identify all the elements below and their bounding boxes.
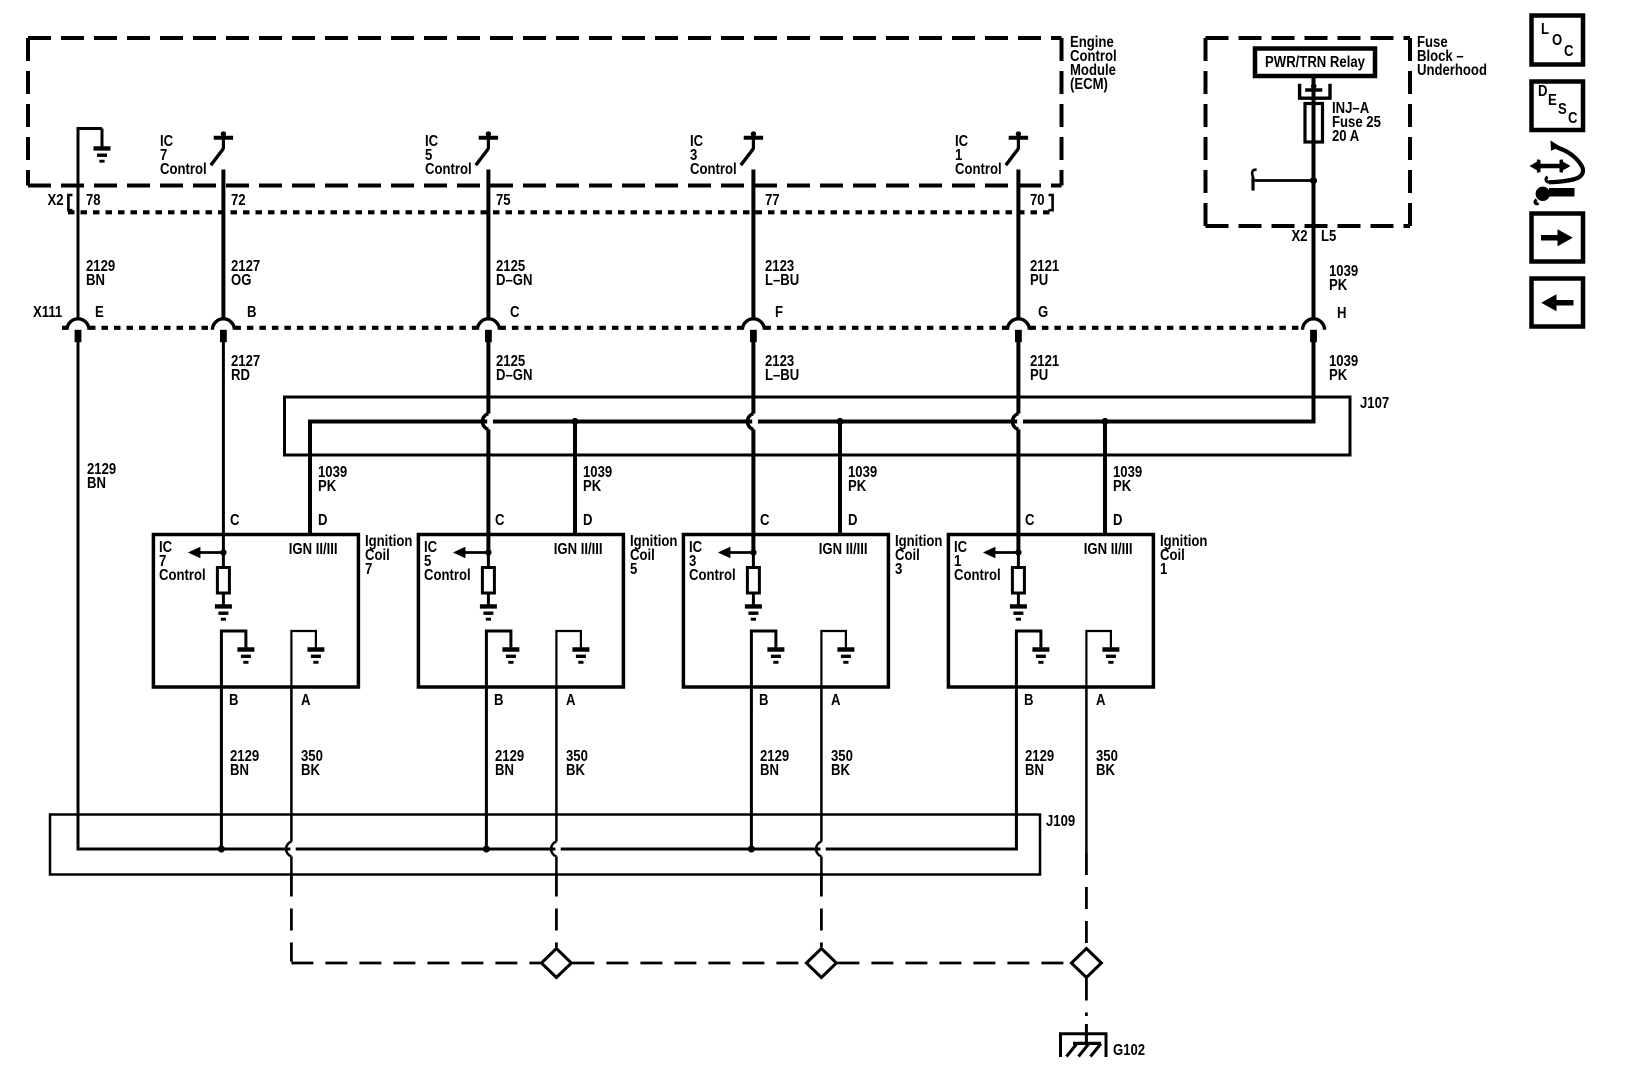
J107 junction dot for coil 3 feed <box>836 418 843 425</box>
label: INJ-A Fuse 25 20 A <box>1332 102 1381 144</box>
label: wire label 2127 RD <box>231 355 260 383</box>
IC 3 Control driver symbol <box>741 131 763 165</box>
splice diamond 3 <box>1071 949 1101 978</box>
label: wire label 1039 PK drop at 847.5 <box>848 466 877 494</box>
fuse INJ-A Fuse 25 20A body <box>1305 104 1323 143</box>
wire 1039 PK fuse block to X111 pin H <box>1312 181 1316 319</box>
dashed wire 350 BK coil 5 A down to splice <box>555 875 558 948</box>
label: pin L5 <box>1321 230 1336 244</box>
label: wire label 2125 D-GN row1 <box>496 260 532 288</box>
Ignition Coil 7 box <box>153 535 358 688</box>
label: LOC letter C <box>1564 45 1573 59</box>
label: wire label 350 BK below coil 5 <box>566 750 588 778</box>
wire 1039 PK drop to coil 3 pin D <box>838 422 842 535</box>
label: wire label 2123 L-BU row1 <box>765 260 799 288</box>
coil 5 IC control arrow <box>453 547 489 558</box>
wire 2125 D-GN ECM pin to X111 <box>486 170 490 319</box>
coil 7 IC control arrow <box>188 547 224 558</box>
wire 2127 RD X111 pin B to coil 7 pin C <box>222 342 225 553</box>
wire 350 BK coil 1 pin A solid segment <box>1085 687 1088 853</box>
label: DESC letter D <box>1538 85 1547 99</box>
sidebar LOC box <box>1532 16 1584 65</box>
X2 connector dotted line <box>68 210 1053 214</box>
label: IC 3 Control (ECM) <box>690 135 737 177</box>
label: coil 5 pin D label <box>583 514 592 528</box>
label: J109 label <box>1046 815 1075 829</box>
X111 pin C connector arc <box>477 319 499 342</box>
J107 splice pack box <box>285 397 1351 455</box>
label: DESC letter E <box>1548 94 1557 108</box>
X111 pin F connector arc <box>742 319 764 342</box>
label: IC 1 Control (coil) <box>954 541 1001 583</box>
label: pin F <box>775 306 783 320</box>
label: Fuse Block - Underhood <box>1417 36 1487 78</box>
J109 junction dot coil 3 <box>748 845 755 852</box>
X111 pin B connector arc <box>212 319 234 342</box>
X111 connector dotted line <box>62 326 1303 330</box>
sidebar routing squiggle icon <box>1530 141 1584 204</box>
label: coil 1 pin C label <box>1025 514 1034 528</box>
label: X2 (fuse block) <box>1292 230 1308 244</box>
X2 connector left bracket <box>68 195 72 210</box>
label: pin G <box>1038 306 1048 320</box>
label: pin B <box>247 306 256 320</box>
wire 350 BK coil 5 pin A crossing J109 with hop <box>551 687 561 875</box>
coil 5 resistor ground <box>480 606 497 619</box>
coil 1 IC control node dot <box>1015 549 1021 555</box>
wire 2129 BN coil 7 pin B to J109 bus <box>220 687 223 849</box>
J109 junction dot coil 5 <box>483 845 490 852</box>
label: pin H <box>1337 307 1346 321</box>
wire 2121 PU ECM pin to X111 <box>1016 170 1020 319</box>
label: coil 5 pin A label <box>566 694 575 708</box>
label: IC 3 Control (coil) <box>689 541 736 583</box>
wire 2129 BN from X111 pin E down, J109 bus, up to coil 1 pin B <box>78 342 1016 849</box>
X111 pin E connector arc <box>67 319 89 342</box>
IC 7 Control driver symbol <box>211 131 233 165</box>
label: wire label 1039 PK row1 <box>1329 265 1358 293</box>
J107 junction dot for coil 1 feed <box>1101 418 1108 425</box>
wire 350 BK coil 7 pin A crossing J109 with hop <box>286 687 296 875</box>
X111 pin H connector arc <box>1303 319 1325 342</box>
label: wire label 2129 BN below coil 3 <box>760 750 789 778</box>
label: IC 7 Control (coil) <box>159 541 206 583</box>
coil 5 IC control node dot <box>485 549 491 555</box>
dashed wire splice 3 down to G102 <box>1085 979 1088 1044</box>
label: Engine <box>1070 36 1117 92</box>
label: coil 3 pin A label <box>831 694 840 708</box>
junction node below fuse <box>1310 177 1317 184</box>
label: pin 75 <box>496 194 511 208</box>
wire 2125 D-GN X111 down to coil pin C with hop over J107 bus <box>482 342 493 553</box>
label: pin 70 <box>1030 194 1045 208</box>
label: coil 1 pin B label <box>1024 694 1033 708</box>
coil 3 IC control arrow <box>718 547 754 558</box>
label: G102 label <box>1113 1044 1145 1058</box>
dashed wire 350 BK coil 3 A down to splice <box>820 875 823 948</box>
label: wire label 2129 BN below coil 1 <box>1025 750 1054 778</box>
label: wire label 2129 BN below coil 5 <box>495 750 524 778</box>
wire 1039 PK drop to coil 5 pin D <box>573 422 577 535</box>
label: coil 3 IGN II/III <box>819 543 868 557</box>
label: pin 78 <box>86 194 101 208</box>
label: PWR/TRN Relay <box>1249 56 1380 70</box>
coil 7 pin A internal ground branch <box>291 631 324 688</box>
label: coil 1 IGN II/III <box>1084 543 1133 557</box>
label: DESC letter S <box>1558 103 1567 117</box>
wire 1039 PK drop to coil 1 pin D <box>1103 422 1107 535</box>
coil 1 IC control arrow <box>983 547 1019 558</box>
J109 splice pack box <box>50 815 1040 875</box>
label: pin 77 <box>765 194 780 208</box>
wire 2123 L-BU X111 down to coil pin C with hop over J107 bus <box>747 342 758 553</box>
coil 5 pin B internal ground branch <box>486 631 519 688</box>
label: coil 5 IGN II/III <box>554 543 603 557</box>
coil 3 IC control node dot <box>750 549 756 555</box>
label: coil 7 pin B label <box>229 694 238 708</box>
label: coil 3 pin C label <box>760 514 769 528</box>
label: coil 3 pin B label <box>759 694 768 708</box>
J107 junction dot for coil 5 feed <box>571 418 578 425</box>
label: wire label 2129 BN row1 <box>86 260 115 288</box>
label: IC 7 Control (ECM) <box>160 135 207 177</box>
label: wire label 2121 PU row1 <box>1030 260 1059 288</box>
label: coil 3 pin D label <box>848 514 857 528</box>
ECM module dashed box <box>28 38 1062 186</box>
sidebar DESC box <box>1532 82 1584 131</box>
label: coil 7 pin C label <box>230 514 239 528</box>
splice diamond 2 <box>806 949 836 978</box>
label: pin 72 <box>231 194 246 208</box>
wire relay output down through fuse <box>1312 76 1316 181</box>
coil 5 pin A internal ground branch <box>556 631 589 688</box>
IC 1 Control driver symbol <box>1006 131 1028 165</box>
coil 3 pin A internal ground branch <box>821 631 854 688</box>
wire 350 BK coil 3 pin A crossing J109 with hop <box>816 687 826 875</box>
coil 7 pin B internal ground branch <box>221 631 254 688</box>
coil 1 pin B internal ground branch <box>1016 631 1049 688</box>
label: Ignition Coil 3 title <box>895 535 942 577</box>
wire branch to relay contact stub <box>1253 179 1314 182</box>
coil 5 primary resistor <box>482 553 494 605</box>
label: LOC letter O <box>1552 34 1562 48</box>
label: DESC letter C <box>1568 112 1577 126</box>
ECM internal ground for 2129 BN <box>77 129 111 319</box>
label: coil 7 pin D label <box>318 514 327 528</box>
relay contact T-bar and dot <box>1305 83 1322 90</box>
label: coil 7 IGN II/III <box>289 543 338 557</box>
dashed wire between splice 1 and splice 2 <box>572 962 805 965</box>
label: IC 1 Control (ECM) <box>955 135 1002 177</box>
label: wire label 350 BK below coil 7 <box>301 750 323 778</box>
sidebar next-page arrow box <box>1532 214 1584 262</box>
label: pin C <box>510 306 519 320</box>
coil 7 resistor ground <box>215 606 232 619</box>
label: Ignition Coil 1 title <box>1160 535 1207 577</box>
coil 7 primary resistor <box>217 553 229 605</box>
J107 1039 PK bus: riser from pin H, bus line, drop to coil 7 pin D <box>310 342 1314 535</box>
wire 2129 BN coil 5 pin B to J109 bus <box>485 687 488 849</box>
label: IC 5 Control (coil) <box>424 541 471 583</box>
label: pin E <box>95 306 104 320</box>
label: wire label 1039 PK row2 <box>1329 355 1358 383</box>
sidebar previous-page arrow box <box>1532 279 1584 327</box>
PWR/TRN Relay box <box>1255 49 1375 77</box>
label: coil 7 pin A label <box>301 694 310 708</box>
dashed wire 350 BK coil 1 A down to splice <box>1085 853 1088 947</box>
label: IC 5 Control (ECM) <box>425 135 472 177</box>
relay branch end tick <box>1252 170 1256 191</box>
label: coil 1 pin D label <box>1113 514 1122 528</box>
label: wire label 2127 OG <box>231 260 260 288</box>
label: wire label 2129 BN left <box>87 463 116 491</box>
wire 2129 BN coil 3 pin B to J109 bus <box>750 687 753 849</box>
label: J107 label <box>1360 397 1389 411</box>
Fuse Block Underhood dashed box <box>1206 38 1411 226</box>
dashed wire between splice 2 and splice 3 <box>837 962 1070 965</box>
label: Ignition Coil 5 title <box>630 535 677 577</box>
label: wire label 2123 L-BU row2 <box>765 355 799 383</box>
X111 pin G connector arc <box>1007 319 1029 342</box>
wire 2123 L-BU ECM pin to X111 <box>751 170 755 319</box>
coil 1 primary resistor <box>1012 553 1024 605</box>
splice diamond 1 <box>541 949 571 978</box>
label: wire label 2121 PU row2 <box>1030 355 1059 383</box>
label: coil 5 pin B label <box>494 694 503 708</box>
coil 3 primary resistor <box>747 553 759 605</box>
label: wire label 2125 D-GN row2 <box>496 355 532 383</box>
label: Ignition Coil 7 title <box>365 535 412 577</box>
coil 3 pin B internal ground branch <box>751 631 784 688</box>
IC 5 Control driver symbol <box>476 131 498 165</box>
label: wire label 1039 PK drop at 1112.5 <box>1113 466 1142 494</box>
label: wire label 350 BK below coil 1 <box>1096 750 1118 778</box>
dashed wire 350 BK coil 7 A down and right to splice <box>291 875 540 964</box>
label: coil 5 pin C label <box>495 514 504 528</box>
label: X111 <box>33 306 62 320</box>
Ignition Coil 1 box <box>948 535 1153 688</box>
wire 2127 OG ECM pin to X111 <box>221 170 225 319</box>
label: wire label 350 BK below coil 3 <box>831 750 853 778</box>
label: coil 1 pin A label <box>1096 694 1105 708</box>
relay output terminal cup symbol <box>1300 84 1330 98</box>
coil 3 resistor ground <box>745 606 762 619</box>
J109 junction dot coil 7 <box>218 845 225 852</box>
G102 chassis ground symbol <box>1061 1034 1107 1057</box>
coil 7 IC control node dot <box>220 549 226 555</box>
coil 1 pin A internal ground branch <box>1086 631 1119 688</box>
label: wire label 1039 PK drop at 582.5 <box>583 466 612 494</box>
X2 connector right bracket <box>1049 195 1053 210</box>
Ignition Coil 5 box <box>418 535 623 688</box>
label: LOC letter L <box>1541 23 1549 37</box>
coil 1 resistor ground <box>1010 606 1027 619</box>
wire 2121 PU X111 down to coil pin C with hop over J107 bus <box>1012 342 1023 553</box>
label: wire label 2129 BN below coil 7 <box>230 750 259 778</box>
label: X2 <box>48 194 64 208</box>
label: wire label 1039 PK drop at 317.5 <box>318 466 347 494</box>
Ignition Coil 3 box <box>683 535 888 688</box>
